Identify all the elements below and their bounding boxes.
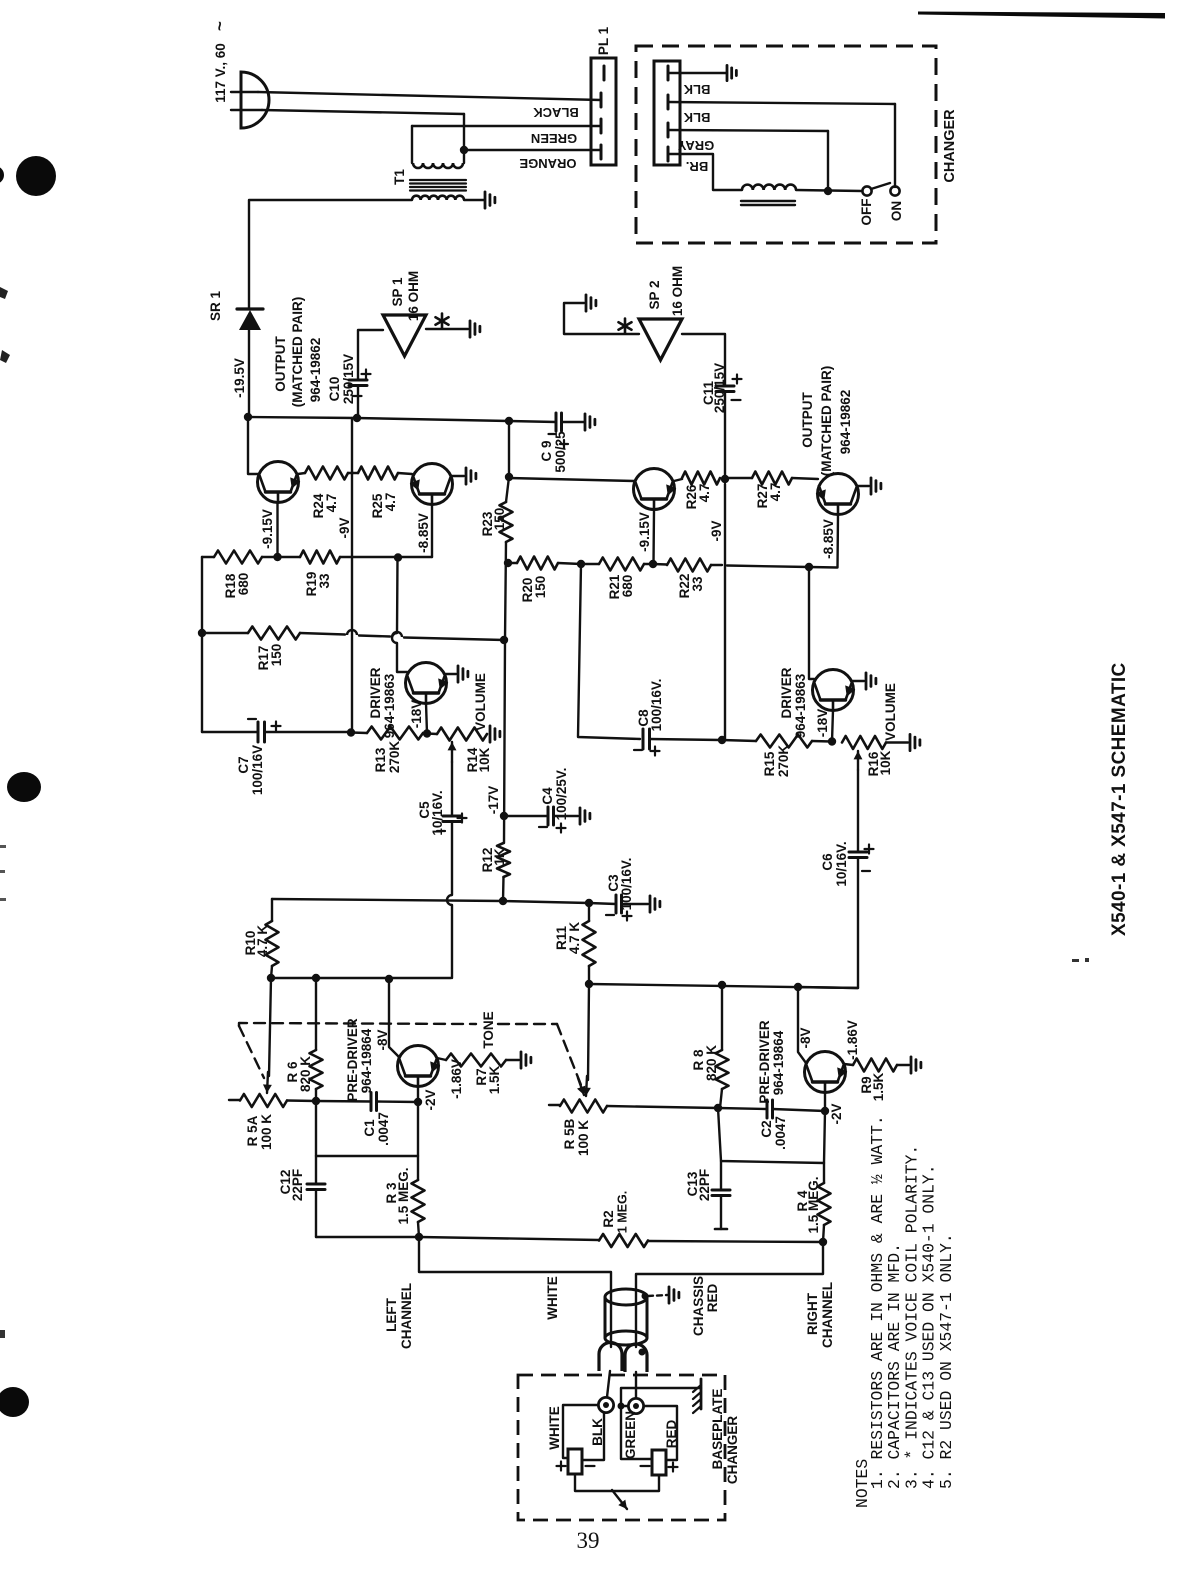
svg-text:964-19864: 964-19864 xyxy=(359,1028,374,1093)
node -19.5V rail xyxy=(244,413,252,421)
svg-text:DRIVER: DRIVER xyxy=(368,667,383,718)
junction R12 bottom xyxy=(499,897,507,905)
svg-text:~: ~ xyxy=(210,21,229,31)
ground C9 xyxy=(584,414,587,430)
svg-text:-8.85V: -8.85V xyxy=(821,519,836,559)
resistor R12 1K xyxy=(504,640,505,843)
junction driver tap right xyxy=(805,563,813,571)
svg-text:WHITE: WHITE xyxy=(547,1406,562,1450)
wire mid horizontal line xyxy=(272,899,503,901)
svg-text:10K: 10K xyxy=(477,747,492,772)
T1 primary winding xyxy=(413,163,463,168)
junction driver base node right xyxy=(828,737,836,745)
svg-text:4.7 K: 4.7 K xyxy=(255,925,270,958)
svg-text:-8.85V: -8.85V xyxy=(416,513,431,553)
svg-text:5. R2 USED ON X547-1 ONLY.: 5. R2 USED ON X547-1 ONLY. xyxy=(937,1233,956,1489)
junction R11/C3 top xyxy=(585,899,593,907)
changer pin 3 GRAY xyxy=(667,123,670,137)
svg-text:964-19864: 964-19864 xyxy=(771,1030,786,1095)
motor coil xyxy=(742,185,796,190)
svg-text:680: 680 xyxy=(236,573,251,596)
PL1 pin 1 xyxy=(603,66,606,80)
transistor Q3 output xyxy=(634,469,675,510)
svg-text:-9.15V: -9.15V xyxy=(637,512,652,552)
wire Q6 emitter to R9 xyxy=(844,1064,853,1065)
svg-text:OFF: OFF xyxy=(859,199,874,226)
wire left feedback bus xyxy=(271,977,451,979)
junction shield to chassis xyxy=(642,1293,649,1300)
svg-text:39: 39 xyxy=(577,1528,600,1553)
ground C3 xyxy=(649,896,652,912)
svg-text:150: 150 xyxy=(492,508,507,531)
edge specks xyxy=(0,287,8,299)
ground R7 xyxy=(520,1052,523,1068)
svg-text:R 5B: R 5B xyxy=(562,1118,577,1149)
svg-text:10/16V.: 10/16V. xyxy=(834,841,849,886)
svg-text:4.7: 4.7 xyxy=(697,484,712,503)
transistor Q2 output xyxy=(412,464,453,505)
wire GRAY down to motor node xyxy=(827,131,829,187)
svg-text:100/25V.: 100/25V. xyxy=(554,768,569,821)
stylus arrow xyxy=(612,1490,627,1509)
svg-text:16 OHM: 16 OHM xyxy=(670,266,685,316)
wire right channel lead xyxy=(636,1242,823,1347)
wire base node left xyxy=(287,1099,316,1102)
svg-text:ORANGE: ORANGE xyxy=(519,156,576,171)
svg-text:820 K: 820 K xyxy=(704,1045,719,1081)
resistor R22 33 xyxy=(653,563,667,566)
wire left channel lead xyxy=(419,1237,611,1347)
junction Q3 base tap xyxy=(505,473,513,481)
svg-text:1.5 MEG.: 1.5 MEG. xyxy=(396,1167,411,1224)
junction Q3 collector node xyxy=(649,560,657,568)
wire SP2 to C11 xyxy=(682,334,725,386)
wire -9V rail left top xyxy=(351,418,353,733)
wire pin2 to switch xyxy=(894,104,896,187)
junction driver collector tap xyxy=(394,553,402,561)
PL1 pin 4 xyxy=(600,145,603,159)
wire GREEN T1 to PL1 xyxy=(412,125,601,127)
wire jack1 right lead xyxy=(582,1413,604,1460)
junction Q5 base node xyxy=(414,1098,422,1106)
wire Q2 emitter down xyxy=(431,505,433,558)
wire jack1 left lead xyxy=(563,1405,598,1458)
wire C13/R4 drops xyxy=(718,1108,825,1163)
switch OFF contact xyxy=(862,186,871,195)
wire R5A wiper from bus xyxy=(269,978,271,1076)
svg-text:PRE-DRIVER: PRE-DRIVER xyxy=(757,1020,772,1104)
junction R4 bottom xyxy=(819,1238,827,1246)
svg-text:C4: C4 xyxy=(540,787,555,805)
junction jacks common xyxy=(618,1403,625,1410)
svg-text:OUTPUT: OUTPUT xyxy=(273,336,288,392)
svg-text:R13: R13 xyxy=(373,747,388,772)
resistor R20 150 xyxy=(508,562,517,564)
resistor R10 4.7K xyxy=(271,899,273,921)
wire jack2 right lead RED xyxy=(644,1406,677,1460)
transistor Q5 pre-driver left xyxy=(398,1046,439,1087)
transistor Q6 pre-driver right xyxy=(805,1052,846,1093)
wire plugs into jacks xyxy=(607,1371,610,1397)
svg-text:100 K: 100 K xyxy=(259,1114,274,1150)
svg-text:964-19863: 964-19863 xyxy=(793,673,808,738)
ground R9 xyxy=(910,1057,913,1073)
top-right rule bar xyxy=(918,12,1165,19)
resistor R23 150 xyxy=(506,477,509,502)
wire R17 to -17V rail with hops xyxy=(300,633,345,635)
asterisk SP1 xyxy=(441,314,444,329)
changer dashed enclosure xyxy=(636,46,936,243)
ground C4 xyxy=(579,808,582,824)
asterisk SP2 xyxy=(624,319,627,334)
svg-text:SP 1: SP 1 xyxy=(390,277,405,307)
wire jack2 left lead GREEN xyxy=(621,1405,628,1407)
junction Q1 emitter node xyxy=(273,553,281,561)
T1 tap junction xyxy=(460,146,468,154)
resistor R11 4.7K xyxy=(583,921,596,966)
svg-text:X540-1 & X547-1 SCHEMATIC: X540-1 & X547-1 SCHEMATIC xyxy=(1109,662,1130,936)
svg-text:1. RESISTORS ARE IN OHMS & A: 1. RESISTORS ARE IN OHMS & ARE ½ WATT. xyxy=(868,1115,887,1489)
ground Q4 xyxy=(870,478,873,494)
wire plug prong2 to T1 xyxy=(231,109,262,111)
svg-text:-1.86V: -1.86V xyxy=(845,1020,860,1060)
svg-text:10/16V.: 10/16V. xyxy=(430,790,445,835)
wire SP2 left to ground xyxy=(564,303,639,334)
svg-text:4.7: 4.7 xyxy=(768,483,783,502)
svg-text:T1: T1 xyxy=(392,169,407,185)
junction -9V rail bottom xyxy=(347,728,355,736)
resistor R13 270K xyxy=(351,731,367,734)
junction R11 bottom xyxy=(585,980,593,988)
junction R10 bottom xyxy=(267,974,275,982)
svg-text:270K: 270K xyxy=(776,745,791,778)
svg-text:-9V: -9V xyxy=(337,517,352,538)
svg-text:LEFT: LEFT xyxy=(384,1297,399,1331)
wire -17V rail xyxy=(508,421,510,477)
wire Q5 base stem xyxy=(417,1086,419,1101)
svg-text:964-19862: 964-19862 xyxy=(838,390,853,455)
resistor R18 680 xyxy=(202,556,214,558)
ground T1 secondary xyxy=(484,192,487,208)
svg-text:R2: R2 xyxy=(601,1210,616,1227)
svg-text:-2V: -2V xyxy=(423,1089,438,1110)
svg-text:-1.86V: -1.86V xyxy=(449,1059,464,1099)
svg-text:SP 2: SP 2 xyxy=(647,280,662,309)
svg-text:1 MEG.: 1 MEG. xyxy=(616,1191,630,1233)
svg-text:-18V: -18V xyxy=(409,700,424,729)
resistor R9 1.5K xyxy=(853,1059,897,1072)
svg-text:CHASSIS: CHASSIS xyxy=(691,1276,706,1336)
potentiometer R5A 100K xyxy=(229,1099,240,1101)
wire driver base stem xyxy=(426,703,427,734)
resistor R25 4.7 xyxy=(352,472,358,474)
svg-text:100/16V: 100/16V xyxy=(250,745,265,795)
ground changer pin1 xyxy=(726,65,729,80)
wire C12/R3 loop xyxy=(316,1101,418,1156)
svg-text:C 9: C 9 xyxy=(539,440,554,461)
svg-text:820 K: 820 K xyxy=(298,1056,313,1092)
wire driver emitter to ground xyxy=(445,673,456,675)
svg-text:680: 680 xyxy=(620,575,635,598)
wire Q2 to ground xyxy=(451,475,464,477)
svg-text:GREEN: GREEN xyxy=(623,1411,638,1459)
wire secondary left lead xyxy=(249,200,412,308)
R14 wiper arrow xyxy=(451,742,453,762)
svg-text:BLK: BLK xyxy=(683,82,710,97)
svg-text:33: 33 xyxy=(317,573,332,589)
resistor R15 270K xyxy=(722,740,756,741)
wire plug to PL1 BLACK xyxy=(231,91,258,93)
resistor R21 680 xyxy=(581,563,599,565)
svg-text:4.7: 4.7 xyxy=(383,493,398,512)
svg-text:RED: RED xyxy=(705,1284,720,1313)
svg-text:1K: 1K xyxy=(492,848,507,866)
svg-text:-19.5V: -19.5V xyxy=(232,358,247,398)
svg-text:BASEPLATE: BASEPLATE xyxy=(710,1389,725,1470)
wire -9V rail right xyxy=(724,484,726,740)
svg-text:TONE: TONE xyxy=(481,1011,496,1048)
resistor R27 4.7 xyxy=(725,477,752,479)
junction pre-driver collector left xyxy=(385,975,393,983)
baseplate changer dashed box xyxy=(518,1375,725,1520)
wire driver right collector xyxy=(809,567,814,679)
resistor R2 1 MEG. xyxy=(599,1234,648,1247)
svg-text:CHANGER: CHANGER xyxy=(725,1416,740,1485)
wire Q6 collector to bus xyxy=(798,987,806,1063)
ground Q2 xyxy=(465,468,468,484)
RCA plug left xyxy=(599,1343,622,1372)
junction R20/R21 and C8 drop xyxy=(577,560,585,568)
svg-text:DRIVER: DRIVER xyxy=(779,667,794,718)
wire Q6 base stem xyxy=(824,1092,826,1111)
svg-text:-9.15V: -9.15V xyxy=(260,509,275,549)
svg-text:-18V: -18V xyxy=(815,709,830,738)
svg-text:.0047: .0047 xyxy=(773,1116,788,1150)
potentiometer R14 10K VOLUME xyxy=(427,732,437,735)
svg-text:RIGHT: RIGHT xyxy=(805,1292,820,1335)
svg-text:WHITE: WHITE xyxy=(545,1276,560,1320)
chassis hatch ground xyxy=(700,1379,703,1409)
junction driver base node left xyxy=(423,729,431,737)
svg-text:RED: RED xyxy=(664,1420,679,1449)
changer pin 1 BLK xyxy=(667,66,670,80)
svg-text:BR.: BR. xyxy=(686,159,708,174)
resistor R17 150 xyxy=(202,632,248,634)
cartridge element right xyxy=(652,1450,666,1475)
svg-text:PRE-DRIVER: PRE-DRIVER xyxy=(345,1018,360,1102)
junction -9V/C8/R15 xyxy=(718,736,726,744)
wire Q4 to ground xyxy=(857,485,869,487)
resistor R24 4.7 xyxy=(298,473,305,474)
junction Q6 base node xyxy=(821,1107,829,1115)
wire SP1 to ground xyxy=(426,328,468,330)
changer pin 2 BLK xyxy=(667,95,670,109)
wire Q3 collector down xyxy=(652,510,655,565)
scan punch hole middle-left xyxy=(7,772,41,802)
svg-text:CHANNEL: CHANNEL xyxy=(820,1282,835,1348)
svg-text:-9V: -9V xyxy=(709,520,724,541)
wire Q5 emitter to R7 xyxy=(437,1058,446,1060)
junction R3 bottom xyxy=(415,1233,423,1241)
transistor Q1 output xyxy=(258,462,299,503)
PL1 pin 3 xyxy=(600,119,603,133)
svg-text:VOLUME: VOLUME xyxy=(473,673,488,731)
scan punch hole bottom-left xyxy=(0,1387,29,1417)
svg-text:4.7: 4.7 xyxy=(324,494,339,513)
svg-text:500/25: 500/25 xyxy=(553,431,568,473)
wire wiper down through C6 xyxy=(857,770,859,852)
ground R14 xyxy=(489,726,492,742)
wire secondary right lead xyxy=(464,199,484,201)
junction motor/gray/switch xyxy=(796,190,862,191)
scan punch hole top-left xyxy=(16,156,56,196)
stylus link xyxy=(575,1474,659,1491)
resistor R6 820K xyxy=(310,1050,323,1089)
svg-text:3. * INDICATES VOICE COIL P: 3. * INDICATES VOICE COIL POLARITY. xyxy=(902,1145,921,1489)
wire driver collector up xyxy=(397,643,407,672)
svg-text:10K: 10K xyxy=(878,750,893,775)
tone gang dashed line xyxy=(239,1023,476,1026)
svg-text:-8V: -8V xyxy=(375,1029,390,1050)
svg-text:BLK: BLK xyxy=(683,110,710,125)
svg-text:C6: C6 xyxy=(820,853,835,871)
transistor Q8 driver right xyxy=(813,670,854,711)
tone gang right diagonal xyxy=(557,1024,581,1085)
junction C4 tap xyxy=(500,812,508,820)
wire base node right xyxy=(607,1106,718,1108)
svg-text:C2: C2 xyxy=(759,1120,774,1137)
changer pin 4 BR. xyxy=(667,147,670,161)
svg-text:.0047: .0047 xyxy=(376,1112,391,1146)
wire Q3 base xyxy=(509,478,634,481)
junction R8 top xyxy=(718,981,726,989)
svg-text:4. C12 & C13 USED ON X540-1: 4. C12 & C13 USED ON X540-1 ONLY. xyxy=(920,1164,939,1489)
title side dots xyxy=(1072,959,1079,962)
svg-text:C7: C7 xyxy=(236,756,251,773)
wire Q4 emitter down xyxy=(836,515,839,568)
potentiometer R5B 100K xyxy=(549,1104,560,1106)
svg-text:GRAY: GRAY xyxy=(677,138,714,153)
junction R8 bottom xyxy=(714,1104,722,1112)
svg-text:PL 1: PL 1 xyxy=(596,26,611,55)
svg-text:270K: 270K xyxy=(387,741,402,774)
svg-text:2. CAPACITORS ARE IN MFD.: 2. CAPACITORS ARE IN MFD. xyxy=(885,1243,904,1489)
svg-text:C1: C1 xyxy=(362,1119,377,1137)
svg-text:100/16V.: 100/16V. xyxy=(649,679,664,732)
svg-text:ON: ON xyxy=(889,201,904,221)
wire right feedback bus xyxy=(589,984,858,988)
wire input bus xyxy=(316,1236,419,1238)
PL1 pin 2 xyxy=(600,93,603,107)
T1 core xyxy=(410,179,466,181)
svg-text:CHANGER: CHANGER xyxy=(942,109,958,183)
phono jack right xyxy=(628,1398,643,1413)
svg-text:1.5K: 1.5K xyxy=(871,1072,886,1101)
svg-text:(MATCHED PAIR): (MATCHED PAIR) xyxy=(819,366,834,477)
svg-text:SR 1: SR 1 xyxy=(208,291,223,322)
transistor Q7 driver left xyxy=(406,663,447,704)
wire node to Q4 stem xyxy=(727,566,809,568)
tone gang left diagonal xyxy=(239,1026,264,1078)
svg-text:150: 150 xyxy=(533,576,548,599)
wire -19.5V bus xyxy=(248,417,509,421)
ground SP2 xyxy=(585,295,588,311)
svg-text:-2V: -2V xyxy=(829,1103,844,1124)
svg-text:1.5K: 1.5K xyxy=(487,1065,502,1094)
svg-text:GREEN: GREEN xyxy=(531,131,577,146)
ground driver left xyxy=(457,666,460,682)
svg-text:117 V., 60: 117 V., 60 xyxy=(213,43,228,103)
changer connector xyxy=(654,61,680,165)
resistor R8 820K xyxy=(716,1050,729,1089)
wire R21 node down to C8 xyxy=(578,564,640,739)
phono jack left xyxy=(598,1397,613,1412)
resistor R26 4.7 xyxy=(674,479,682,481)
svg-text:C10: C10 xyxy=(327,377,342,402)
ground driver right xyxy=(865,673,868,689)
svg-text:CHANNEL: CHANNEL xyxy=(399,1283,414,1349)
wire left rail xyxy=(201,557,203,732)
chassis ground symbol xyxy=(668,1287,671,1303)
wire node to Q2 emitter xyxy=(352,556,432,558)
ground R16 xyxy=(909,734,912,750)
AC plug xyxy=(241,72,269,128)
junction R20 left xyxy=(504,559,512,567)
wire R5B wiper from bus xyxy=(588,984,589,1080)
svg-text:150: 150 xyxy=(269,644,284,667)
resistor R19 33 xyxy=(278,556,301,558)
switch ON contact xyxy=(890,186,899,195)
svg-text:964-19862: 964-19862 xyxy=(308,338,323,403)
RCA plug right xyxy=(625,1344,647,1372)
svg-text:OUTPUT: OUTPUT xyxy=(800,392,815,448)
wire Q5 collector to bus xyxy=(389,979,399,1057)
cartridge element left xyxy=(568,1449,582,1474)
svg-text:R 5A: R 5A xyxy=(245,1115,260,1146)
cable shield xyxy=(605,1289,647,1305)
svg-text:-17V: -17V xyxy=(486,786,501,815)
wire jack common to chassis xyxy=(621,1388,701,1406)
svg-text:22PF: 22PF xyxy=(290,1169,305,1201)
svg-text:-8V: -8V xyxy=(798,1027,813,1048)
R16 wiper arrow xyxy=(857,751,859,770)
svg-text:VOLUME: VOLUME xyxy=(883,683,898,741)
wire ORANGE T1 tap to PL1 xyxy=(464,149,601,151)
wire Q1 emitter to node xyxy=(276,503,278,557)
wire bus to Q1 base xyxy=(248,417,258,474)
wire driver right emitter to ground xyxy=(852,680,864,682)
svg-text:(MATCHED PAIR): (MATCHED PAIR) xyxy=(290,297,305,408)
svg-text:964-19863: 964-19863 xyxy=(382,673,397,738)
wire wiper down through C5 xyxy=(451,762,453,816)
junction pre-driver collector right xyxy=(794,983,802,991)
switch blade xyxy=(871,183,890,189)
svg-text:4.7 K: 4.7 K xyxy=(567,922,582,955)
potentiometer R16 10K VOLUME xyxy=(842,736,886,749)
ground SP1 xyxy=(469,321,472,337)
T1 secondary winding xyxy=(412,196,464,200)
transistor Q4 output xyxy=(818,474,859,515)
svg-text:R15: R15 xyxy=(762,751,777,776)
svg-text:BLK: BLK xyxy=(590,1418,605,1446)
resistor R7 1.5K xyxy=(446,1054,506,1067)
svg-text:100 K: 100 K xyxy=(576,1120,591,1156)
svg-text:33: 33 xyxy=(690,576,705,592)
junction R6 top xyxy=(312,974,320,982)
junction C11/R26/R27 xyxy=(721,475,729,483)
junction R17 left xyxy=(198,629,206,637)
svg-text:BLACK: BLACK xyxy=(533,105,579,120)
